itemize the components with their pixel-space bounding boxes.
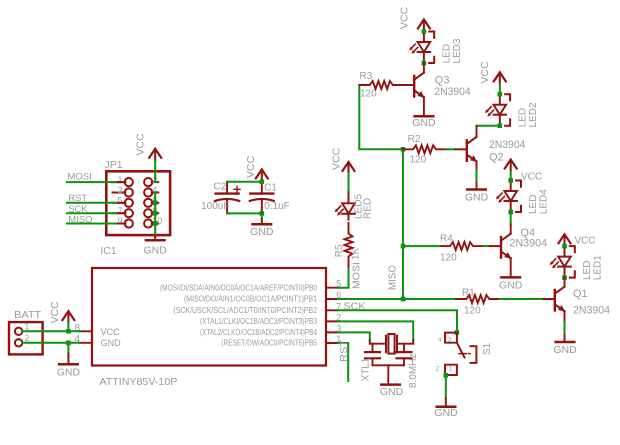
battery connector BATT: [9, 322, 43, 354]
svg-text:GND: GND: [380, 386, 404, 398]
LED4: [496, 181, 521, 213]
svg-text:(MISO/DO/AIN1/OC0B/OC1A/PCINT1: (MISO/DO/AIN1/OC0B/OC1A/PCINT1)PB1: [184, 295, 317, 304]
svg-text:MOSI: MOSI: [352, 262, 363, 289]
supply VCC at C1: [256, 170, 268, 182]
svg-text:C1: C1: [264, 183, 277, 194]
svg-text:GND: GND: [499, 279, 523, 291]
wire IC pin3 to crystal left: [338, 332, 370, 340]
supply VCC at LED2: [494, 72, 506, 84]
junction C1 bottom: [260, 211, 265, 216]
resistor R2 120: [403, 145, 447, 153]
switch S1: [445, 333, 476, 375]
wire C2 bottom to C1 bottom: [227, 212, 262, 214]
IC U1 ATTINY85V-10P box: [92, 268, 326, 366]
junction MISO/pin6: [401, 297, 406, 302]
wire SCK to JP1 pin7: [67, 212, 118, 214]
svg-text:LED: LED: [582, 261, 593, 280]
svg-text:2N3904: 2N3904: [489, 139, 525, 151]
svg-text:LED2: LED2: [528, 102, 539, 127]
svg-text:2N3904: 2N3904: [434, 86, 470, 98]
wire MISO line to R4: [403, 245, 440, 247]
wire IC pin7 SCK to switch S1: [338, 310, 457, 332]
svg-text:R3: R3: [360, 71, 373, 82]
svg-text:LED: LED: [528, 195, 539, 214]
junction on JP1 pin8: [153, 211, 158, 216]
junction LED2 bottom: [498, 123, 503, 128]
svg-text:R5: R5: [334, 244, 345, 257]
svg-text:LED: LED: [441, 44, 452, 63]
svg-text:LED3: LED3: [452, 38, 463, 63]
wire BATT pin2 to IC pin4: [23, 342, 81, 344]
svg-text:8.0MHz: 8.0MHz: [408, 354, 419, 388]
junction MISO/R2: [401, 147, 406, 152]
svg-text:R2: R2: [408, 134, 421, 145]
svg-text:VCC: VCC: [245, 155, 257, 178]
svg-text:C2: C2: [214, 182, 227, 193]
svg-text:1: 1: [117, 175, 122, 185]
resistor R5 1K: [345, 223, 353, 267]
wire LED2 to Q2 collector: [477, 125, 500, 127]
svg-text:5: 5: [117, 196, 122, 206]
junction LED4 top: [508, 178, 513, 183]
svg-text:3: 3: [117, 185, 122, 195]
svg-text:RED: RED: [363, 198, 374, 219]
wire S1 to GND: [445, 375, 447, 398]
svg-text:GND: GND: [553, 344, 577, 356]
svg-text:MISO: MISO: [388, 265, 399, 290]
wire BATT pin1 to IC pin8: [23, 330, 81, 332]
supply VCC at LED1: [559, 234, 571, 246]
wire IC pin2 to crystal right: [338, 321, 413, 340]
svg-text:(SCK/USCK/SCL/ADC1/T0/INT0/PCI: (SCK/USCK/SCL/ADC1/T0/INT0/PCINT2)PB2: [173, 306, 317, 315]
svg-text:VCC: VCC: [135, 133, 147, 156]
transistor Q3 2N3904: [403, 73, 425, 98]
ground under Q1: [556, 341, 575, 343]
svg-text:VCC: VCC: [49, 301, 61, 324]
svg-text:R4: R4: [440, 234, 453, 245]
junction LED2 top: [498, 92, 503, 97]
wire VCC drop: [67, 323, 69, 331]
svg-text:VCC: VCC: [575, 236, 596, 247]
svg-text:GND: GND: [101, 338, 122, 348]
svg-text:9: 9: [117, 216, 122, 226]
IC pin numbers: [75, 279, 342, 345]
wire VCC to JP1 pin2: [154, 161, 156, 183]
svg-text:Q2: Q2: [489, 151, 504, 163]
svg-text:Q1: Q1: [573, 288, 588, 300]
svg-text:GND: GND: [434, 407, 458, 419]
ground under XTL1: [381, 384, 400, 386]
wire MOSI to JP1 pin1: [67, 181, 118, 183]
IC pin labels: [160, 283, 318, 347]
svg-text:SCK: SCK: [68, 204, 88, 215]
JP1 pin numbers: [117, 175, 122, 226]
wire IC pin1 RST: [338, 343, 348, 381]
resistor R1 120: [456, 295, 500, 303]
resistor R3 120: [359, 81, 403, 89]
wire IC pin5 to R5 (MOSI): [338, 267, 349, 288]
wire R4 to Q4 base: [484, 245, 490, 247]
ground under JP1: [154, 236, 156, 240]
ground under S1: [437, 406, 456, 408]
supply VCC at JP1: [149, 149, 161, 161]
LED1: [550, 246, 575, 278]
transistor Q2 2N3904: [456, 137, 478, 162]
transistor Q1 2N3904: [544, 287, 566, 312]
LED3: [409, 32, 434, 64]
svg-text:MOSI: MOSI: [68, 172, 92, 183]
svg-text:VCC: VCC: [479, 61, 491, 84]
wire VCC to LED4: [510, 171, 512, 180]
junction S1 bottom: [444, 373, 449, 378]
IC pin stubs right: [326, 288, 338, 343]
svg-text:LED1: LED1: [593, 255, 604, 280]
svg-text:RST: RST: [68, 193, 87, 204]
resistor R4 120: [440, 242, 484, 250]
svg-text:(XTAL1/CLKI/OC1B/ADC3/PCINT3)P: (XTAL1/CLKI/OC1B/ADC3/PCINT3)PB3: [200, 317, 317, 326]
svg-text:LED4: LED4: [539, 189, 550, 214]
transistor Q4 2N3904: [490, 234, 512, 259]
supply VCC at BATT: [62, 311, 74, 323]
junction on JP1 pin10: [153, 221, 158, 226]
junction LED3 bottom: [422, 61, 427, 66]
wire RST to JP1 pin5: [67, 202, 118, 204]
svg-text:2: 2: [25, 333, 30, 343]
svg-text:(XTAL2/CLKO/OC1B/ADC2/PCINT4)P: (XTAL2/CLKO/OC1B/ADC2/PCINT4)PB4: [200, 328, 318, 337]
svg-text:120: 120: [464, 306, 481, 317]
ground under Q2: [467, 189, 486, 191]
crystal pin stubs: [370, 340, 413, 344]
supply VCC at LED3: [418, 20, 430, 32]
junction BATT VCC: [66, 329, 71, 334]
junction BATT GND: [66, 341, 71, 346]
svg-text:ATTINY85V-10P: ATTINY85V-10P: [99, 376, 177, 388]
svg-text:1K: 1K: [350, 247, 361, 260]
svg-text:2N3904: 2N3904: [573, 304, 610, 316]
capacitor C2 100uF: [215, 182, 240, 214]
svg-text:XTL1: XTL1: [361, 357, 372, 381]
junction S1 top: [455, 330, 460, 335]
svg-text:VCC: VCC: [399, 6, 411, 29]
svg-text:100uF: 100uF: [201, 201, 229, 212]
svg-text:120: 120: [440, 253, 457, 264]
svg-text:(RESET/DW/ADC0/PCINT5)PB5: (RESET/DW/ADC0/PCINT5)PB5: [221, 339, 317, 348]
svg-text:120: 120: [410, 154, 427, 165]
svg-text:IC1: IC1: [100, 245, 117, 257]
wire R1 to Q1 base: [500, 298, 544, 300]
wire VCC to LED5: [348, 174, 350, 192]
junction LED1 top: [562, 244, 567, 249]
svg-text:MISO: MISO: [68, 214, 92, 225]
LED5 RED: [336, 192, 355, 219]
junction on JP1 pin6: [153, 201, 158, 206]
svg-text:1: 1: [449, 366, 453, 373]
junction MISO/R4: [401, 244, 406, 249]
resonator XTL1 8.0MHz: [365, 334, 413, 384]
svg-text:GND: GND: [465, 192, 489, 204]
supply VCC at LED5: [343, 162, 355, 174]
svg-text:SCK: SCK: [344, 302, 366, 313]
wire LED4 to Q4 collector: [510, 212, 512, 225]
svg-text:VCC: VCC: [101, 327, 121, 337]
ground under Q4: [501, 276, 520, 278]
junction LED1 bottom: [562, 275, 567, 280]
svg-text:LED: LED: [517, 108, 528, 127]
svg-text:GND: GND: [144, 245, 168, 257]
capacitor C1 0.1uF: [250, 182, 274, 214]
LED2: [485, 94, 510, 126]
ground under Q3: [415, 115, 434, 117]
svg-text:0.1uF: 0.1uF: [264, 201, 290, 212]
svg-text:Q3: Q3: [435, 74, 450, 86]
supply VCC at LED4: [505, 160, 517, 172]
svg-text:R1: R1: [462, 288, 475, 299]
svg-text:JP1: JP1: [105, 159, 123, 171]
wire MISO to JP1 pin9: [67, 223, 118, 225]
svg-text:1: 1: [25, 322, 30, 332]
svg-text:120: 120: [360, 89, 377, 100]
svg-text:VCC: VCC: [521, 172, 542, 183]
wire C2 top to C1 top: [227, 181, 262, 183]
svg-text:GND: GND: [250, 226, 274, 238]
svg-text:2N3904: 2N3904: [509, 237, 547, 249]
wire R3 riser to MISO line: [359, 85, 403, 149]
svg-text:(MOSI/DI/SDA/AIN0/OC0A/OC1A/AR: (MOSI/DI/SDA/AIN0/OC0A/OC1A/AREF/PCINT0)…: [160, 283, 318, 292]
IC pin stubs left pins 8,4: [80, 331, 92, 343]
wire VCC to LED2: [499, 84, 501, 94]
junction LED3 top: [422, 29, 427, 34]
junction C1 top: [260, 179, 265, 184]
junction LED4 bottom: [508, 210, 513, 215]
svg-text:2: 2: [436, 366, 440, 373]
svg-text:GND: GND: [57, 367, 81, 379]
connector JP1 (ISP header): [106, 171, 170, 235]
svg-text:S1: S1: [482, 342, 493, 355]
svg-text:RST: RST: [339, 340, 350, 362]
wire R2 to Q2 base: [447, 148, 456, 150]
ground under C1: [261, 213, 263, 219]
svg-text:BATT: BATT: [14, 309, 42, 321]
svg-text:7: 7: [117, 206, 122, 216]
wire IC pin6 row (to R1): [338, 298, 456, 300]
svg-text:4: 4: [438, 337, 442, 344]
wire MISO vertical net: [402, 149, 404, 299]
ground under BATT wire: [67, 343, 69, 354]
wire JP1 GND chain pins 4,6,8,10: [154, 193, 156, 237]
svg-text:GND: GND: [412, 117, 436, 129]
svg-text:VCC: VCC: [331, 147, 343, 170]
svg-text:3: 3: [448, 337, 452, 344]
